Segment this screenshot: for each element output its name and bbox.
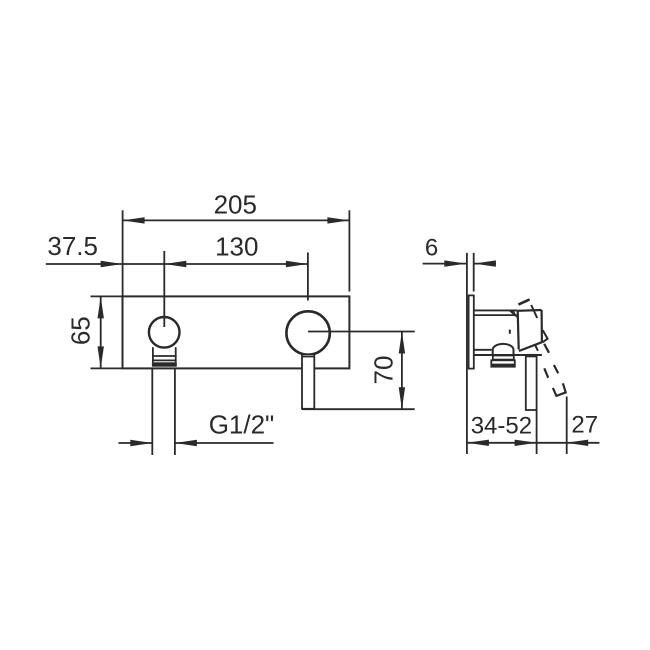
dimension line 70	[401, 332, 403, 410]
svg-text:65: 65	[65, 316, 95, 345]
G1/2 dimension line left	[119, 442, 153, 444]
svg-text:34-52: 34-52	[471, 413, 532, 440]
svg-text:6: 6	[425, 235, 438, 262]
handle front	[302, 355, 314, 409]
extension line dashed-handle extent	[566, 397, 568, 455]
aerator line 1	[152, 355, 177, 357]
extension line plate left	[122, 210, 124, 296]
G1/2 dimension line right	[175, 442, 274, 444]
arrow 37.5 right-pointing at plate edge	[101, 261, 123, 267]
dimension line 65	[100, 296, 102, 368]
arrow 34-52 right	[515, 440, 537, 446]
dimension line 6 right	[474, 263, 496, 265]
cartridge hub corner V	[542, 330, 547, 342]
dimension line 205	[123, 219, 350, 221]
arrow 130 left at spout center	[164, 261, 186, 267]
spout box 2 with thick bottom (side)	[491, 360, 515, 366]
spout neck lines	[152, 347, 154, 362]
svg-text:70: 70	[368, 356, 398, 385]
svg-text:205: 205	[214, 190, 257, 220]
text 70 (rotated)	[368, 356, 398, 385]
arrow 205 left	[123, 217, 145, 223]
svg-text:37.5: 37.5	[47, 231, 98, 261]
dashed handle upper diagonal	[531, 305, 537, 318]
arrow 65 bottom	[98, 346, 104, 368]
aerator bottom band	[152, 362, 177, 366]
wedge at rail end	[508, 310, 518, 319]
arrow 34-52 left	[467, 440, 489, 446]
dashed handle end cap	[553, 383, 566, 396]
aerator line 2	[152, 359, 177, 361]
arrow 27 (external, pointing left)	[566, 440, 588, 446]
handle top lip (side)	[527, 355, 535, 357]
handle (side view)	[526, 356, 537, 410]
arrow 205 right	[327, 217, 349, 223]
wall line	[466, 253, 468, 454]
plate front extension line	[473, 253, 475, 292]
cartridge hub bottom tilted edge	[519, 342, 542, 351]
arrow 6 left	[444, 260, 466, 266]
plate (front view)	[123, 296, 350, 368]
dashed handle left line dash 1	[535, 344, 538, 351]
arrow 130 right at valve center	[286, 261, 308, 267]
dashed handle right line dash 1	[544, 344, 549, 353]
body top inner line	[474, 314, 518, 316]
cartridge hub top edge	[518, 309, 542, 312]
svg-text:130: 130	[215, 232, 258, 262]
cartridge hub left edge	[518, 311, 519, 350]
arrow G1/2 left	[130, 440, 152, 446]
spout box 1 (side)	[493, 356, 514, 360]
spout circle	[149, 317, 180, 348]
arrow 6 right	[474, 260, 496, 266]
arrow G1/2 right	[175, 440, 197, 446]
70 extension line top (from valve center)	[308, 331, 415, 333]
centerline spout	[163, 251, 165, 327]
70 extension line bottom (handle bottom)	[302, 408, 415, 410]
centerline valve	[307, 253, 309, 301]
65 extension line top	[91, 295, 123, 297]
body bottom outer line	[474, 354, 542, 356]
supply pipe left line	[151, 368, 153, 455]
dashed handle upper dash	[518, 299, 529, 304]
extension line handle right edge	[536, 409, 538, 454]
dimension line 6 left	[423, 263, 467, 265]
dashed handle left line dash 2	[544, 368, 548, 378]
65 extension line bottom	[91, 367, 123, 369]
arrow 65 top	[98, 296, 104, 318]
body bottom inner line	[474, 349, 492, 351]
body top outer line	[474, 309, 518, 311]
center mark dash	[509, 330, 511, 334]
cartridge hub right edge	[540, 310, 543, 342]
dashed handle right line dash 2	[554, 365, 558, 373]
supply pipe right line	[174, 368, 176, 455]
dimension line 34-52 / 27	[467, 442, 600, 444]
arrow 70 bottom	[399, 387, 405, 409]
dimension line 37.5 / 130	[46, 263, 308, 265]
spout dome (side view)	[493, 344, 514, 356]
plate bar (side view)	[469, 295, 474, 368]
text 65 (rotated)	[65, 316, 95, 345]
extension line plate right	[348, 210, 350, 291]
valve circle	[286, 311, 329, 354]
svg-text:27: 27	[571, 412, 598, 439]
handle front joint line	[302, 356, 314, 358]
arrow 70 top	[399, 332, 405, 354]
svg-text:G1/2": G1/2"	[209, 410, 275, 440]
